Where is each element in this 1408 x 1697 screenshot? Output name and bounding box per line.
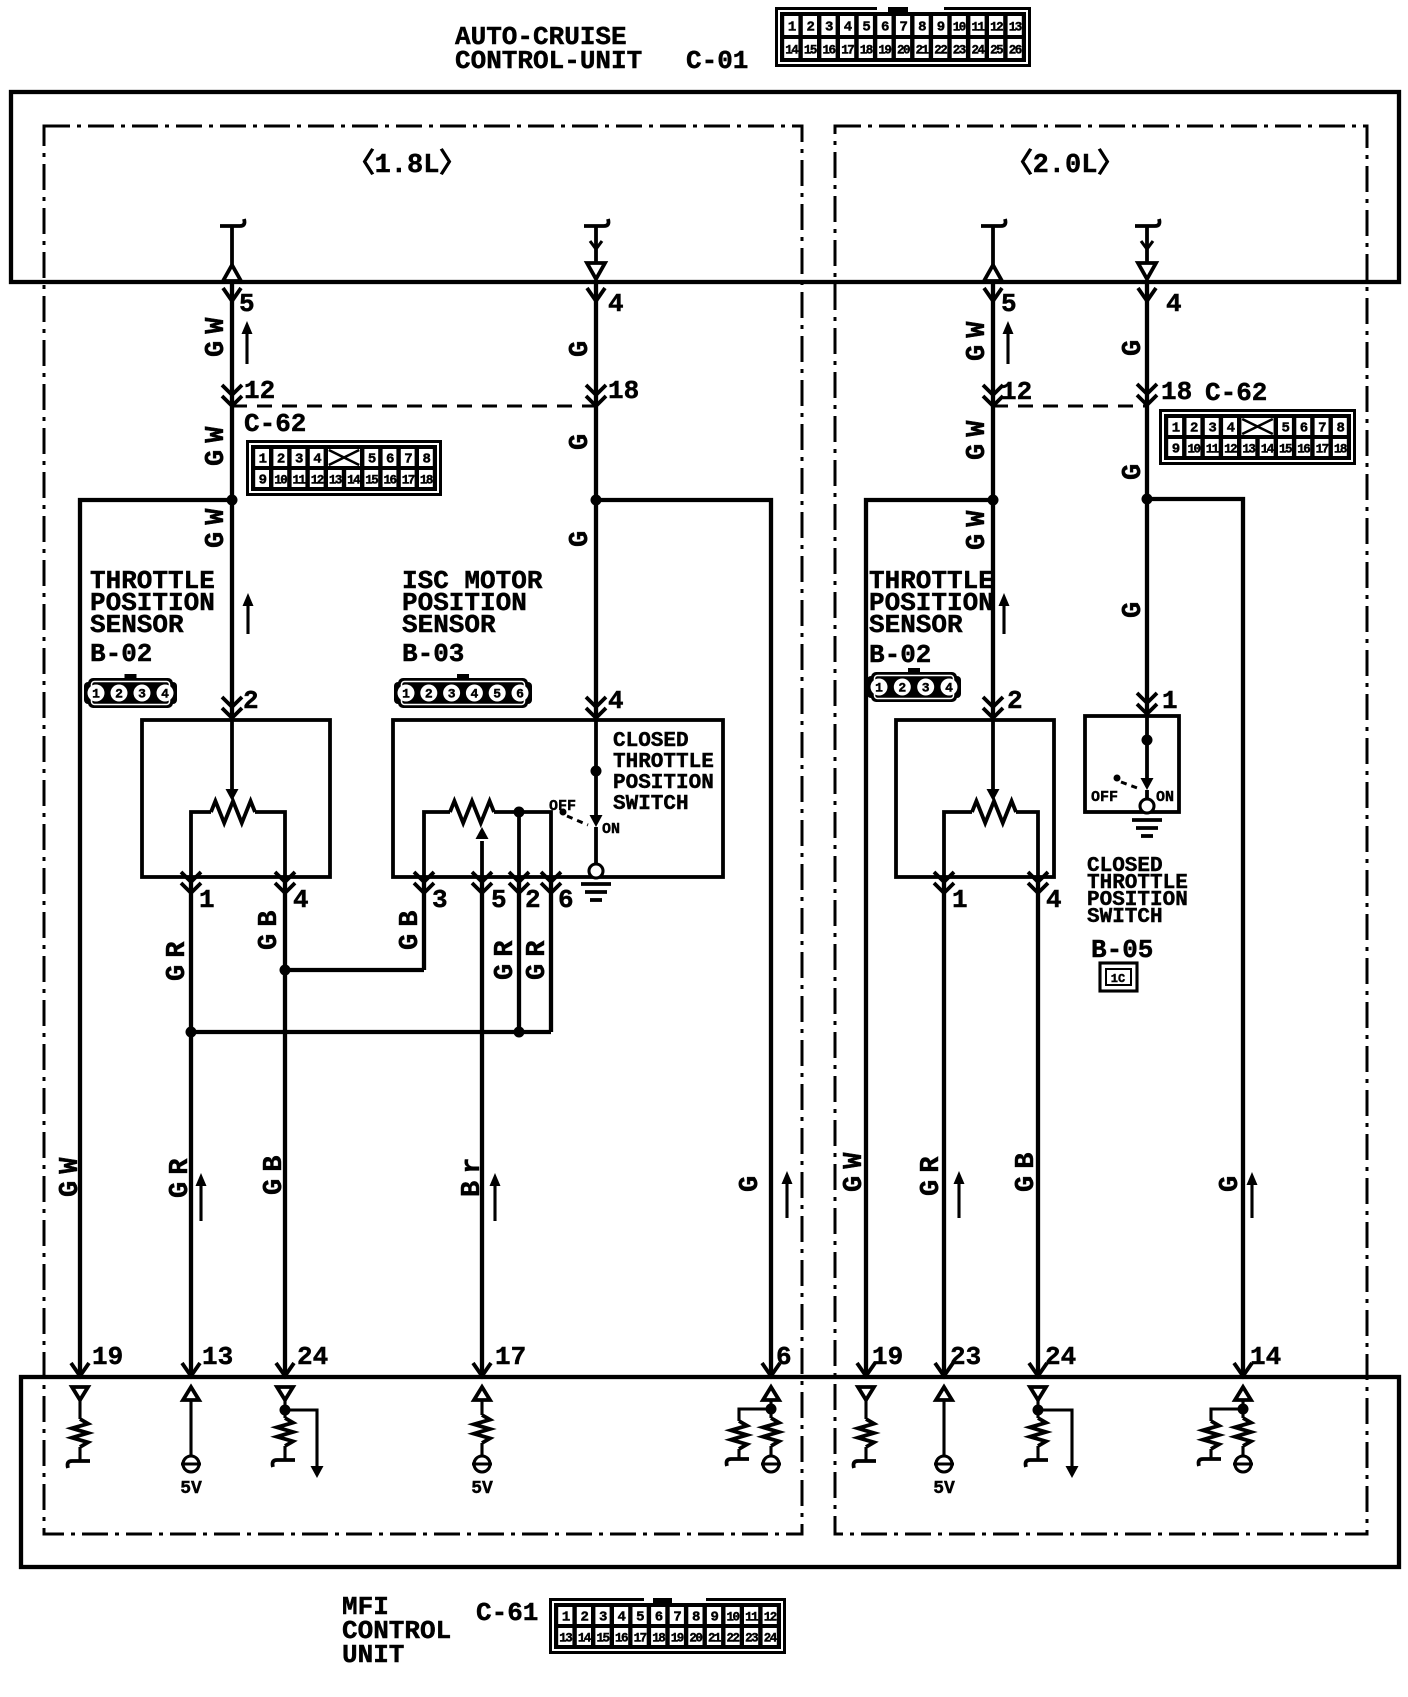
- svg-text:26: 26: [1009, 44, 1022, 58]
- MFI pin19 lead2: [78, 1447, 81, 1461]
- svg-text:8: 8: [918, 20, 926, 36]
- svg-text:5V: 5V: [180, 1479, 202, 1499]
- connector B-03 pinout: [394, 674, 532, 708]
- connector B-02 pinout (2.0L): [867, 668, 961, 702]
- svg-text:24: 24: [764, 1632, 778, 1646]
- fork MFI pin 19 (1.8L): [71, 1363, 89, 1376]
- MFI pin24 coil terminator: [273, 1460, 296, 1467]
- svg-text:ON: ON: [602, 821, 620, 838]
- switch lower lead (1.8L): [594, 827, 598, 864]
- svg-text:4: 4: [470, 687, 478, 702]
- MFI pin13 5V source: [181, 1456, 201, 1472]
- switch OFF contact and dashed throw (2.0L): [1114, 775, 1141, 790]
- svg-text:5: 5: [491, 885, 507, 915]
- MFI pin6 branch resistor: [731, 1421, 747, 1449]
- svg-text:4: 4: [1166, 289, 1182, 319]
- GB link wire: [285, 968, 424, 972]
- svg-text:G: G: [566, 334, 596, 357]
- svg-text:2: 2: [115, 687, 123, 702]
- ISC pin 2 chevrons: [509, 872, 529, 893]
- svg-text:18: 18: [1334, 443, 1347, 457]
- svg-text:2: 2: [898, 681, 906, 696]
- svg-text:6: 6: [516, 687, 524, 702]
- svg-text:18: 18: [652, 1632, 665, 1646]
- svg-text:16: 16: [383, 474, 396, 488]
- svg-text:17: 17: [1316, 443, 1329, 457]
- chevrons C-62 pin 12 (1.8L): [222, 385, 242, 406]
- MFI pin13 internal lead: [189, 1400, 192, 1456]
- pin 4 lead with arrow (1.8L): [590, 226, 602, 263]
- svg-text:4: 4: [313, 452, 321, 468]
- 2.0L section dash-dot box: [835, 126, 1367, 1534]
- C-62 boundary dashed line (1.8L): [232, 405, 596, 408]
- connector C-62 pinout (1.8L): [246, 440, 442, 496]
- junction G (2.0L): [1142, 494, 1153, 505]
- svg-text:4: 4: [608, 686, 624, 716]
- chevrons C-62 pin 18 (2.0L): [1137, 384, 1157, 405]
- pin 4 terminal curl (1.8L): [584, 219, 609, 226]
- MFI pin14 lead2: [1241, 1446, 1244, 1456]
- svg-text:18: 18: [608, 376, 639, 406]
- svg-text:1: 1: [788, 20, 796, 36]
- direction arrow GW (2.0L): [1003, 321, 1014, 364]
- svg-text:11: 11: [971, 21, 984, 35]
- MFI pin19 internal resistor: [72, 1419, 88, 1447]
- wire G from C-01 pin 4 down to ISC switch (1.8L): [594, 283, 598, 720]
- ISC wiper lead: [480, 841, 484, 877]
- svg-text:14: 14: [1261, 443, 1275, 457]
- 1.8L section dash-dot box: [44, 126, 802, 1534]
- MFI control unit boundary box: [21, 1377, 1399, 1567]
- MFI pin24 internal lead (2.0L): [1036, 1400, 1039, 1418]
- fork MFI pin 24 (2.0L): [1029, 1363, 1047, 1376]
- switch junction (1.8L): [591, 766, 602, 777]
- svg-text:22: 22: [934, 44, 947, 58]
- svg-text:12: 12: [764, 1611, 777, 1625]
- chevrons switch pin 1 (2.0L): [1137, 693, 1157, 714]
- fork MFI pin 17: [473, 1363, 491, 1376]
- ISC resistor end leads: [424, 812, 450, 877]
- wiper arrowhead (2.0L): [987, 789, 1000, 801]
- MFI pin24 internal resistor (2.0L): [1030, 1418, 1046, 1446]
- MFI pin14 source circle: [1233, 1456, 1253, 1472]
- svg-text:20: 20: [689, 1632, 702, 1646]
- svg-text:13: 13: [329, 474, 342, 488]
- chevrons sensor pin 2 (1.8L): [222, 697, 242, 718]
- MFI pin17 5V source: [472, 1456, 492, 1472]
- MFI pin17 internal resistor: [474, 1415, 490, 1443]
- MFI pin19 internal lead: [78, 1400, 81, 1419]
- direction arrow GR bottom (2.0L): [954, 1171, 965, 1218]
- pin 4 open triangle (1.8L): [587, 263, 605, 279]
- svg-text:GW: GW: [56, 1151, 86, 1197]
- direction arrow G bottom (2.0L): [1247, 1172, 1258, 1218]
- svg-text:SWITCH: SWITCH: [1087, 906, 1163, 929]
- svg-text:24: 24: [971, 44, 985, 58]
- MFI pin24 branch arrow: [311, 1466, 324, 1478]
- svg-text:19: 19: [671, 1632, 684, 1646]
- svg-text:4: 4: [945, 681, 953, 696]
- junction GR bus left: [186, 1027, 197, 1038]
- svg-text:GB: GB: [396, 904, 426, 950]
- sensor pin 1 chevrons (2.0L): [934, 872, 954, 893]
- connector C-01 pinout: [775, 7, 1031, 67]
- svg-text:GR: GR: [917, 1150, 947, 1196]
- svg-text:9: 9: [711, 1610, 719, 1626]
- MFI pin24 input triangle: [277, 1387, 293, 1400]
- fork MFI pin 6: [762, 1363, 780, 1376]
- direction arrow G bottom (1.8L): [782, 1171, 793, 1218]
- svg-text:5V: 5V: [933, 1479, 955, 1499]
- connector B-05 pinout: [1100, 963, 1137, 991]
- svg-text:2: 2: [806, 20, 814, 36]
- svg-text:13: 13: [202, 1342, 233, 1372]
- MFI pin19 lead2 (2.0L): [864, 1447, 867, 1461]
- MFI pin19 internal resistor (2.0L): [858, 1419, 874, 1447]
- svg-text:3: 3: [138, 687, 146, 702]
- svg-text:3: 3: [599, 1610, 607, 1626]
- sensor pin 1 chevrons (1.8L): [181, 872, 201, 893]
- MFI pin6 branch lead: [739, 1409, 771, 1421]
- svg-text:GW: GW: [202, 420, 232, 466]
- wire GW from C-01 pin 5 down to sensor (1.8L): [230, 283, 234, 720]
- svg-text:15: 15: [1279, 443, 1292, 457]
- svg-text:1: 1: [199, 885, 215, 915]
- MFI pin24 lead2 (2.0L): [1036, 1446, 1039, 1460]
- svg-text:11: 11: [745, 1611, 758, 1625]
- chevrons C-62 pin 12 (2.0L): [983, 385, 1003, 406]
- svg-text:4: 4: [1046, 885, 1062, 915]
- fork MFI pin 23: [935, 1363, 953, 1376]
- svg-text:B-02: B-02: [90, 639, 152, 669]
- svg-text:5: 5: [368, 452, 376, 468]
- MFI pin17 internal lead: [480, 1400, 483, 1415]
- junction GW (2.0L): [988, 495, 999, 506]
- MFI pin24 input triangle (2.0L): [1030, 1387, 1046, 1400]
- resistor end leads (2.0L): [944, 812, 972, 877]
- MFI pin24 coil terminator (2.0L): [1026, 1460, 1049, 1467]
- closed throttle switch wire (1.8L): [594, 720, 598, 815]
- svg-text:5: 5: [1001, 289, 1017, 319]
- svg-text:19: 19: [872, 1342, 903, 1372]
- pin 5 open triangle (2.0L): [984, 265, 1002, 281]
- svg-text:8: 8: [422, 452, 430, 468]
- svg-text:GR: GR: [166, 1152, 196, 1198]
- pin 4 open triangle (2.0L): [1138, 263, 1156, 279]
- junction ISC pin 2: [514, 807, 525, 818]
- svg-text:14: 14: [1250, 1342, 1281, 1372]
- sensor pin 4 chevrons (2.0L): [1028, 872, 1048, 893]
- MFI pin24 internal resistor: [277, 1418, 293, 1446]
- pin 5 lead (1.8L): [230, 226, 234, 266]
- MFI pin23 output triangle: [936, 1387, 952, 1400]
- svg-text:7: 7: [673, 1610, 681, 1626]
- resistor end leads (1.8L): [191, 812, 211, 877]
- potentiometer resistor (2.0L): [972, 801, 1016, 823]
- svg-text:4: 4: [1227, 421, 1235, 437]
- svg-text:5: 5: [493, 687, 501, 702]
- MFI pin19 input triangle: [72, 1387, 88, 1400]
- svg-text:10: 10: [274, 474, 287, 488]
- svg-text:UNIT: UNIT: [342, 1640, 404, 1670]
- svg-text:11: 11: [1206, 443, 1219, 457]
- switch wire (2.0L): [1145, 716, 1149, 778]
- MFI pin6 lead2: [769, 1446, 772, 1456]
- svg-text:15: 15: [804, 44, 817, 58]
- svg-text:SWITCH: SWITCH: [613, 793, 689, 816]
- junction GR bus right: [514, 1027, 525, 1038]
- svg-text:OFF: OFF: [1091, 789, 1118, 806]
- svg-text:23: 23: [745, 1632, 758, 1646]
- chevrons sensor pin 2 (2.0L): [983, 697, 1003, 718]
- svg-text:B-02: B-02: [869, 640, 931, 670]
- throttle position sensor box (1.8L): [142, 720, 330, 877]
- svg-text:13: 13: [559, 1632, 572, 1646]
- svg-text:1: 1: [259, 452, 267, 468]
- MFI pin19 coil terminator (2.0L): [854, 1461, 877, 1468]
- MFI pin24 junction (2.0L): [1033, 1405, 1044, 1416]
- svg-text:2: 2: [425, 687, 433, 702]
- svg-text:13: 13: [1242, 443, 1255, 457]
- svg-text:THROTTLE: THROTTLE: [613, 751, 714, 774]
- connector fork C-01 pin 4 (2.0L): [1138, 288, 1156, 301]
- svg-text:17: 17: [634, 1632, 647, 1646]
- ISC motor position sensor box: [393, 720, 723, 877]
- svg-text:16: 16: [615, 1632, 628, 1646]
- sensor pin 4 chevrons (1.8L): [275, 872, 295, 893]
- svg-text:GW: GW: [963, 414, 993, 460]
- switch junction (2.0L): [1142, 735, 1153, 746]
- svg-text:16: 16: [822, 44, 835, 58]
- GR bus wire: [191, 1030, 551, 1034]
- svg-text:1: 1: [1172, 421, 1180, 437]
- ISC potentiometer resistor: [450, 801, 494, 823]
- svg-text:14: 14: [578, 1632, 592, 1646]
- MFI pin6 internal lead: [769, 1400, 772, 1418]
- MFI pin23 internal lead: [942, 1400, 945, 1456]
- svg-text:19: 19: [878, 44, 891, 58]
- C-62 boundary dashed line (2.0L): [993, 405, 1147, 408]
- ground (1.8L): [581, 884, 611, 900]
- wire GW branch to MFI pin 19 (2.0L): [866, 500, 993, 1377]
- switch ground contact circle (2.0L): [1140, 799, 1154, 813]
- MFI pin14 branch resistor: [1203, 1421, 1219, 1449]
- svg-text:10: 10: [953, 21, 966, 35]
- svg-text:SENSOR: SENSOR: [869, 610, 963, 640]
- svg-text:C-01: C-01: [686, 46, 748, 76]
- svg-text:POSITION: POSITION: [613, 772, 714, 795]
- svg-text:GB: GB: [260, 1149, 290, 1195]
- svg-text:18: 18: [860, 44, 873, 58]
- svg-text:7: 7: [404, 452, 412, 468]
- svg-text:1: 1: [402, 687, 410, 702]
- svg-text:15: 15: [596, 1632, 609, 1646]
- fork MFI pin 19 (2.0L): [857, 1363, 875, 1376]
- svg-text:G: G: [1119, 457, 1149, 480]
- potentiometer wiper (2.0L): [991, 720, 995, 789]
- wire GB from ISC pin3: [422, 877, 426, 970]
- svg-text:GR: GR: [163, 935, 193, 981]
- svg-text:G: G: [736, 1169, 766, 1192]
- wire GW branch to MFI pin 19 (1.8L): [80, 500, 232, 1377]
- svg-text:9: 9: [259, 473, 267, 489]
- direction arrow GR bottom (1.8L): [196, 1173, 207, 1221]
- svg-text:12: 12: [1001, 377, 1032, 407]
- connector B-02 pinout (1.8L): [84, 674, 177, 708]
- chevrons C-62 pin 18 (1.8L): [586, 385, 606, 406]
- MFI pin14 junction: [1238, 1404, 1249, 1415]
- svg-text:4: 4: [844, 20, 852, 36]
- svg-text:GW: GW: [202, 502, 232, 548]
- svg-text:7: 7: [900, 20, 908, 36]
- svg-text:G: G: [566, 427, 596, 450]
- closed throttle switch box (2.0L): [1085, 716, 1179, 812]
- svg-text:C-62: C-62: [244, 409, 306, 439]
- junction GW (1.8L): [227, 495, 238, 506]
- junction G (1.8L): [591, 495, 602, 506]
- potentiometer resistor (1.8L): [211, 801, 255, 823]
- connector fork C-01 pin 5 (2.0L): [984, 288, 1002, 301]
- svg-text:C-62: C-62: [1205, 378, 1267, 408]
- svg-text:10: 10: [726, 1611, 739, 1625]
- svg-text:CONTROL-UNIT: CONTROL-UNIT: [455, 46, 642, 76]
- svg-text:1: 1: [952, 885, 968, 915]
- svg-text:GW: GW: [202, 311, 232, 357]
- svg-text:15: 15: [365, 474, 378, 488]
- throttle position sensor box (2.0L): [896, 720, 1054, 877]
- wire GB from sensor pin4 to MFI pin 24 (2.0L): [1036, 877, 1040, 1377]
- svg-text:22: 22: [726, 1632, 739, 1646]
- svg-text:2: 2: [1190, 421, 1198, 437]
- svg-text:12: 12: [1224, 443, 1237, 457]
- svg-text:4: 4: [293, 885, 309, 915]
- junction GB (1.8L): [280, 965, 291, 976]
- svg-text:〈2.0L〉: 〈2.0L〉: [1006, 148, 1125, 181]
- svg-text:〈1.8L〉: 〈1.8L〉: [348, 148, 467, 181]
- control unit C-01 boundary box: [11, 92, 1399, 282]
- svg-text:2: 2: [525, 885, 541, 915]
- svg-text:6: 6: [1300, 421, 1308, 437]
- pin 4 lead with arrow (2.0L): [1141, 226, 1153, 263]
- wire GR from ISC pin2: [517, 877, 521, 1032]
- svg-text:5V: 5V: [471, 1479, 493, 1499]
- svg-text:4: 4: [161, 687, 169, 702]
- MFI pin14 coil terminator: [1199, 1459, 1222, 1466]
- svg-text:14: 14: [347, 474, 361, 488]
- wire G from C-01 pin 4 down to switch (2.0L): [1145, 283, 1149, 716]
- svg-text:3: 3: [432, 885, 448, 915]
- svg-text:5: 5: [862, 20, 870, 36]
- connector fork C-01 pin 5 (1.8L): [223, 288, 241, 301]
- svg-text:Br: Br: [458, 1151, 488, 1197]
- svg-text:7: 7: [1318, 421, 1326, 437]
- svg-text:6: 6: [558, 885, 574, 915]
- svg-text:1: 1: [875, 681, 883, 696]
- svg-text:5: 5: [1282, 421, 1290, 437]
- switch moving contact arrow (2.0L): [1141, 778, 1154, 790]
- MFI pin24 branch arrow (2.0L): [1066, 1466, 1079, 1478]
- pin 5 open triangle (1.8L): [223, 265, 241, 281]
- fork MFI pin 24 (1.8L): [276, 1363, 294, 1376]
- svg-text:17: 17: [402, 474, 415, 488]
- connector C-61 pinout: [549, 1598, 786, 1654]
- pin 4 terminal curl (2.0L): [1135, 219, 1160, 226]
- svg-text:C-61: C-61: [476, 1598, 538, 1628]
- svg-text:23: 23: [953, 44, 966, 58]
- svg-text:21: 21: [916, 44, 929, 58]
- svg-text:GB: GB: [1012, 1146, 1042, 1192]
- svg-text:GW: GW: [840, 1146, 870, 1192]
- ISC pin 6 chevrons: [541, 872, 561, 893]
- svg-text:6: 6: [881, 20, 889, 36]
- svg-text:21: 21: [708, 1632, 721, 1646]
- svg-text:1: 1: [92, 687, 100, 702]
- switch OFF contact and dashed throw (1.8L): [560, 809, 589, 826]
- ISC pin 3 chevrons: [414, 872, 434, 893]
- svg-text:11: 11: [292, 474, 305, 488]
- svg-text:25: 25: [990, 44, 1003, 58]
- wire GR from ISC pin6: [549, 877, 553, 1032]
- svg-text:GR: GR: [523, 934, 553, 980]
- svg-text:10: 10: [1187, 443, 1200, 457]
- svg-text:3: 3: [448, 687, 456, 702]
- ISC pin 5 chevrons: [472, 872, 492, 893]
- MFI pin17 output triangle: [474, 1387, 490, 1400]
- MFI pin14 branch lead: [1211, 1409, 1243, 1421]
- pin 5 lead (2.0L): [991, 226, 995, 266]
- svg-text:13: 13: [1009, 21, 1022, 35]
- svg-text:8: 8: [1336, 421, 1344, 437]
- svg-text:GW: GW: [963, 504, 993, 550]
- svg-text:2: 2: [277, 452, 285, 468]
- svg-text:SENSOR: SENSOR: [402, 610, 496, 640]
- svg-text:2: 2: [243, 686, 259, 716]
- wire G branch to MFI pin 6 (1.8L): [596, 500, 771, 1377]
- MFI pin6 coil terminator: [727, 1459, 750, 1466]
- MFI pin6 branch lead2: [737, 1449, 740, 1459]
- svg-text:17: 17: [495, 1342, 526, 1372]
- MFI pin24 branch: [285, 1410, 317, 1467]
- svg-text:9: 9: [1172, 442, 1180, 458]
- pin 5 terminal curl (1.8L): [220, 219, 245, 226]
- MFI pin14 internal resistor: [1235, 1418, 1251, 1446]
- MFI pin19 internal lead (2.0L): [864, 1400, 867, 1419]
- svg-text:20: 20: [897, 44, 910, 58]
- svg-text:5: 5: [636, 1610, 644, 1626]
- svg-text:5: 5: [239, 289, 255, 319]
- svg-text:CLOSED: CLOSED: [613, 730, 689, 753]
- ISC wiper arrowhead: [476, 827, 489, 839]
- svg-text:9: 9: [937, 20, 945, 36]
- MFI pin6 internal resistor: [763, 1418, 779, 1446]
- svg-text:B-03: B-03: [402, 639, 464, 669]
- svg-text:4: 4: [608, 289, 624, 319]
- wire Br from ISC pin5 to MFI pin 17: [480, 877, 484, 1377]
- MFI pin14 internal lead: [1241, 1400, 1244, 1418]
- svg-text:GW: GW: [963, 315, 993, 361]
- switch moving contact arrow (1.8L): [590, 815, 603, 827]
- wiper arrowhead (1.8L): [226, 789, 239, 801]
- MFI pin17 lead2: [480, 1443, 483, 1456]
- svg-text:1C: 1C: [1111, 972, 1125, 986]
- svg-text:1: 1: [1162, 686, 1178, 716]
- MFI pin24 lead2: [283, 1446, 286, 1460]
- MFI pin19 input triangle (2.0L): [858, 1387, 874, 1400]
- ISC pin 2 lead: [517, 812, 521, 877]
- svg-text:23: 23: [950, 1342, 981, 1372]
- MFI pin19 coil terminator: [68, 1461, 91, 1468]
- direction arrow sensor feed (1.8L): [243, 593, 254, 634]
